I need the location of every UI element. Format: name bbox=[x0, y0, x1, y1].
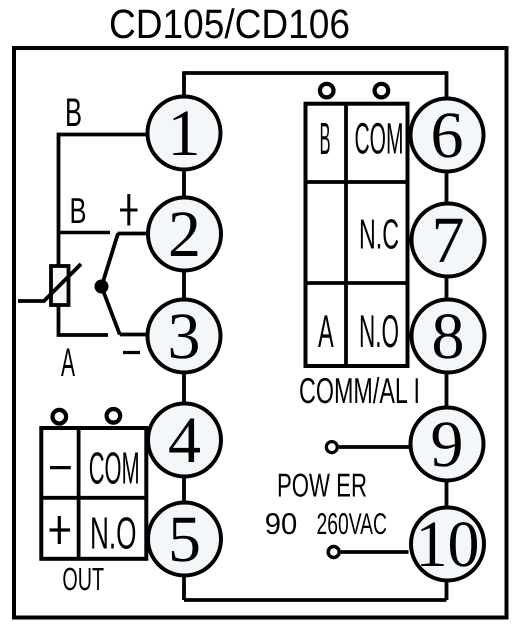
svg-text:POW ER: POW ER bbox=[277, 467, 367, 504]
minus sign terminal 3 bbox=[123, 351, 140, 354]
terminal 4 bbox=[148, 404, 221, 478]
svg-text:90260VAC: 90260VAC bbox=[265, 508, 387, 541]
svg-text:4: 4 bbox=[168, 404, 201, 477]
terminal 1 bbox=[148, 97, 221, 171]
wire B lead to terminal 1 bbox=[59, 133, 147, 137]
junction dot bbox=[95, 280, 109, 294]
svg-text:B: B bbox=[320, 113, 331, 164]
OUT screw terminal left bbox=[53, 410, 67, 424]
wire top bus bbox=[184, 71, 447, 75]
OUT relay box bbox=[41, 428, 146, 559]
svg-text:OUT: OUT bbox=[62, 561, 104, 597]
svg-text:8: 8 bbox=[432, 300, 465, 373]
svg-text:N.O: N.O bbox=[359, 305, 399, 357]
svg-text:A: A bbox=[318, 305, 334, 357]
power lead circle to terminal 9 bbox=[326, 442, 337, 453]
svg-text:B: B bbox=[70, 190, 87, 231]
svg-text:7: 7 bbox=[432, 204, 465, 277]
COMM screw terminal left bbox=[320, 84, 334, 98]
svg-text:COMM/AL I: COMM/AL I bbox=[299, 370, 420, 411]
terminal 5 bbox=[148, 503, 221, 577]
svg-text:N.C: N.C bbox=[359, 211, 399, 258]
terminal 2 bbox=[148, 198, 221, 272]
wire right bus bbox=[445, 71, 449, 600]
terminal 7 bbox=[412, 204, 485, 278]
svg-text:10: 10 bbox=[416, 508, 480, 581]
svg-text:3: 3 bbox=[168, 300, 201, 373]
svg-text:2: 2 bbox=[168, 198, 201, 271]
wire diagonal to terminal 3 bbox=[102, 287, 120, 335]
OUT box vertical divider bbox=[77, 428, 81, 559]
wire terminal 2 stub bbox=[118, 232, 148, 236]
plus sign OUT bbox=[50, 516, 71, 544]
terminal 8 bbox=[412, 300, 485, 374]
wire thermistor bottom lead bbox=[59, 305, 109, 335]
svg-text:6: 6 bbox=[431, 99, 464, 172]
OUT box horizontal divider bbox=[41, 496, 146, 500]
terminal 6 bbox=[411, 99, 484, 173]
COMM screw terminal right bbox=[375, 84, 389, 98]
COMM box divider row1 bbox=[306, 180, 408, 184]
wire bottom bus bbox=[184, 598, 447, 602]
svg-text:CD105/CD106: CD105/CD106 bbox=[109, 1, 350, 47]
thermistor strike bbox=[18, 264, 81, 301]
plus sign terminal 2 bbox=[120, 194, 138, 226]
thermistor body bbox=[51, 266, 69, 305]
terminal 3 bbox=[148, 300, 221, 374]
wire power to terminal 10 bbox=[341, 550, 409, 554]
wire power to terminal 9 bbox=[339, 445, 409, 449]
svg-text:N.O: N.O bbox=[90, 508, 137, 559]
wire left bus bbox=[182, 71, 186, 600]
OUT screw terminal right bbox=[107, 409, 121, 423]
svg-text:A: A bbox=[61, 341, 75, 385]
wire diagonal to junction bbox=[102, 234, 119, 287]
svg-text:COM: COM bbox=[89, 443, 140, 494]
power lead circle to terminal 10 bbox=[328, 547, 339, 558]
terminal 9 bbox=[411, 408, 484, 482]
COMM box divider row2 bbox=[306, 281, 408, 285]
minus sign OUT bbox=[50, 466, 71, 469]
svg-text:COM: COM bbox=[355, 115, 404, 164]
svg-text:9: 9 bbox=[431, 408, 464, 481]
wire sensor vertical bbox=[57, 133, 61, 268]
terminal 10 bbox=[411, 508, 484, 582]
COMM box vertical divider bbox=[344, 104, 348, 366]
svg-text:1: 1 bbox=[168, 97, 201, 170]
COMM/ALI relay box bbox=[306, 104, 408, 366]
svg-text:B: B bbox=[65, 91, 82, 135]
wire B lead terminal 2 bbox=[59, 231, 111, 235]
svg-text:5: 5 bbox=[168, 503, 201, 576]
wire terminal 3 stub bbox=[120, 333, 147, 337]
